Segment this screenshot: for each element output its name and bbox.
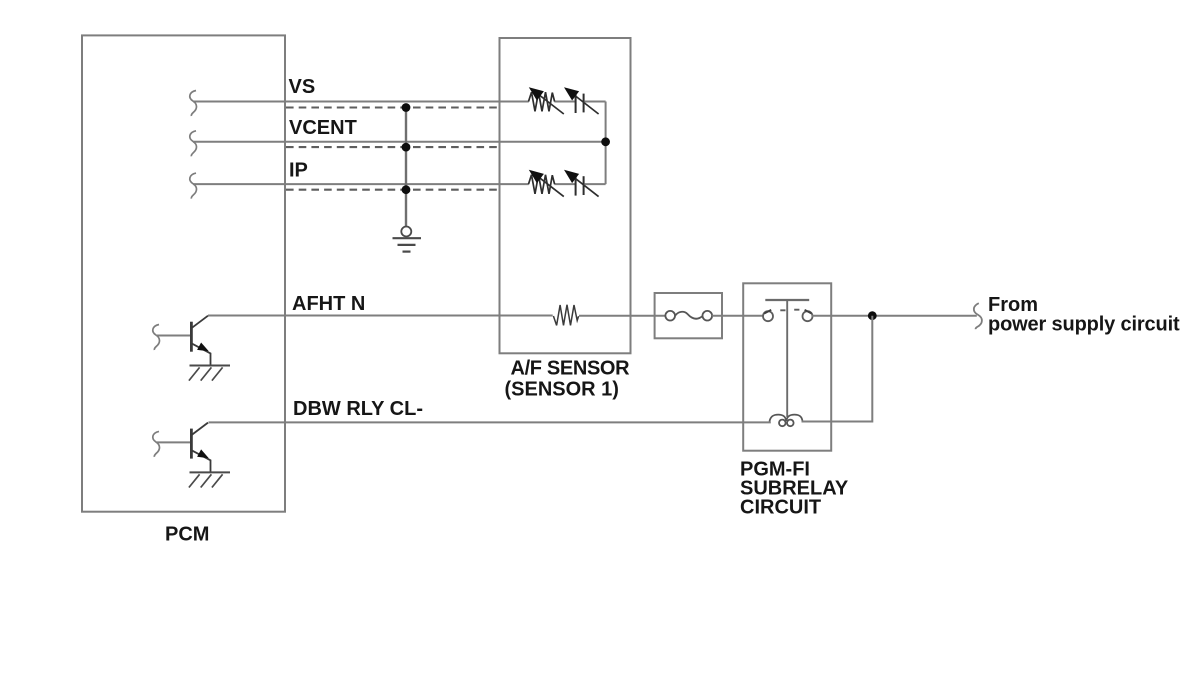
junction dot shield VS	[402, 103, 411, 112]
svg-text:VS: VS	[289, 76, 316, 98]
collector Q2	[191, 423, 208, 436]
sensor cell 2 (IP): variable capacitor plates	[571, 175, 599, 197]
svg-text:A/F SENSOR: A/F SENSOR	[511, 358, 631, 380]
relay contact blade left	[764, 310, 771, 314]
pin break squiggle VS	[190, 91, 197, 116]
base pin squiggle Q1	[153, 325, 160, 351]
shield dashed line VS	[286, 106, 499, 108]
break squiggle From power	[974, 303, 982, 329]
wire fuse to relay contact	[712, 315, 763, 317]
arrow over capacitor (cell 1)	[571, 93, 599, 115]
arrow over resistor (cell 1)	[536, 93, 564, 115]
wire DBW RLY CL-	[209, 421, 771, 423]
wire VCENT	[193, 141, 606, 143]
junction dot shield IP	[402, 185, 411, 194]
junction dot VCENT-cells	[601, 137, 610, 146]
base bar Q2	[190, 429, 193, 459]
svg-text:VCENT: VCENT	[289, 117, 357, 139]
svg-text:PCM: PCM	[165, 523, 209, 545]
wire VS	[193, 101, 529, 103]
base wire Q2	[157, 441, 191, 443]
svg-text:DBW RLY CL-: DBW RLY CL-	[293, 398, 423, 420]
relay coil	[770, 415, 803, 427]
relay contact circles	[763, 311, 813, 321]
junction dot power node	[868, 311, 877, 320]
A/F sensor box	[500, 38, 631, 353]
relay contact blade right	[805, 310, 812, 314]
heater resistor in sensor	[553, 305, 578, 326]
wire relay contact to power node	[812, 315, 977, 317]
emitter Q2	[191, 450, 210, 472]
sensor cell 1 (VS): variable capacitor plates	[571, 93, 599, 115]
emitter arrowhead Q2	[197, 449, 209, 458]
arrow over capacitor (cell 2)	[571, 175, 599, 197]
sensor cell 2 (IP): variable resistor	[529, 175, 564, 197]
shield dashed line VCENT	[286, 146, 499, 148]
relay contact ticks	[780, 309, 785, 311]
sensor cell 1 (VS): variable resistor	[529, 92, 564, 114]
wire heater to fuse	[579, 315, 666, 317]
pin break squiggle VCENT	[190, 131, 197, 157]
base pin squiggle Q2	[153, 431, 160, 457]
wire cell2 capacitor to right connector	[585, 183, 606, 185]
arrow over resistor (cell 2)	[536, 175, 564, 197]
svg-text:power supply circuit: power supply circuit	[988, 313, 1180, 335]
transistor Q1 (AFHT N driver)	[153, 316, 230, 381]
pin break squiggle IP	[190, 173, 197, 199]
shield dashed line IP	[286, 189, 499, 191]
PCM box	[82, 35, 285, 511]
wire coil to power node (right side + up)	[802, 316, 873, 422]
svg-text:AFHT N: AFHT N	[292, 293, 365, 315]
svg-text:(SENSOR 1): (SENSOR 1)	[505, 379, 619, 401]
shield drain vertical wire	[405, 108, 407, 227]
chassis ground Q1	[190, 365, 231, 367]
relay box	[743, 283, 831, 450]
ground symbol (shield)	[393, 227, 422, 252]
svg-text:IP: IP	[289, 159, 308, 181]
sensor cells right vertical connector wire	[605, 102, 607, 185]
relay armature stem	[786, 300, 788, 417]
wire AFHT N (collector to heater)	[208, 315, 553, 317]
base wire Q1	[157, 335, 191, 337]
fuse element	[665, 311, 712, 321]
wire cell1 capacitor to right connector	[585, 101, 606, 103]
wire IP	[193, 183, 529, 185]
chassis ground Q2	[190, 471, 231, 473]
svg-text:CIRCUIT: CIRCUIT	[740, 497, 821, 519]
fuse box	[655, 293, 722, 338]
emitter Q1	[191, 343, 210, 365]
base bar Q1	[190, 322, 193, 352]
transistor Q2 (DBW relay driver)	[153, 423, 230, 488]
emitter arrowhead Q1	[197, 343, 209, 352]
relay armature bar	[765, 299, 809, 301]
junction dot shield VCENT	[402, 143, 411, 152]
collector Q1	[191, 316, 208, 329]
